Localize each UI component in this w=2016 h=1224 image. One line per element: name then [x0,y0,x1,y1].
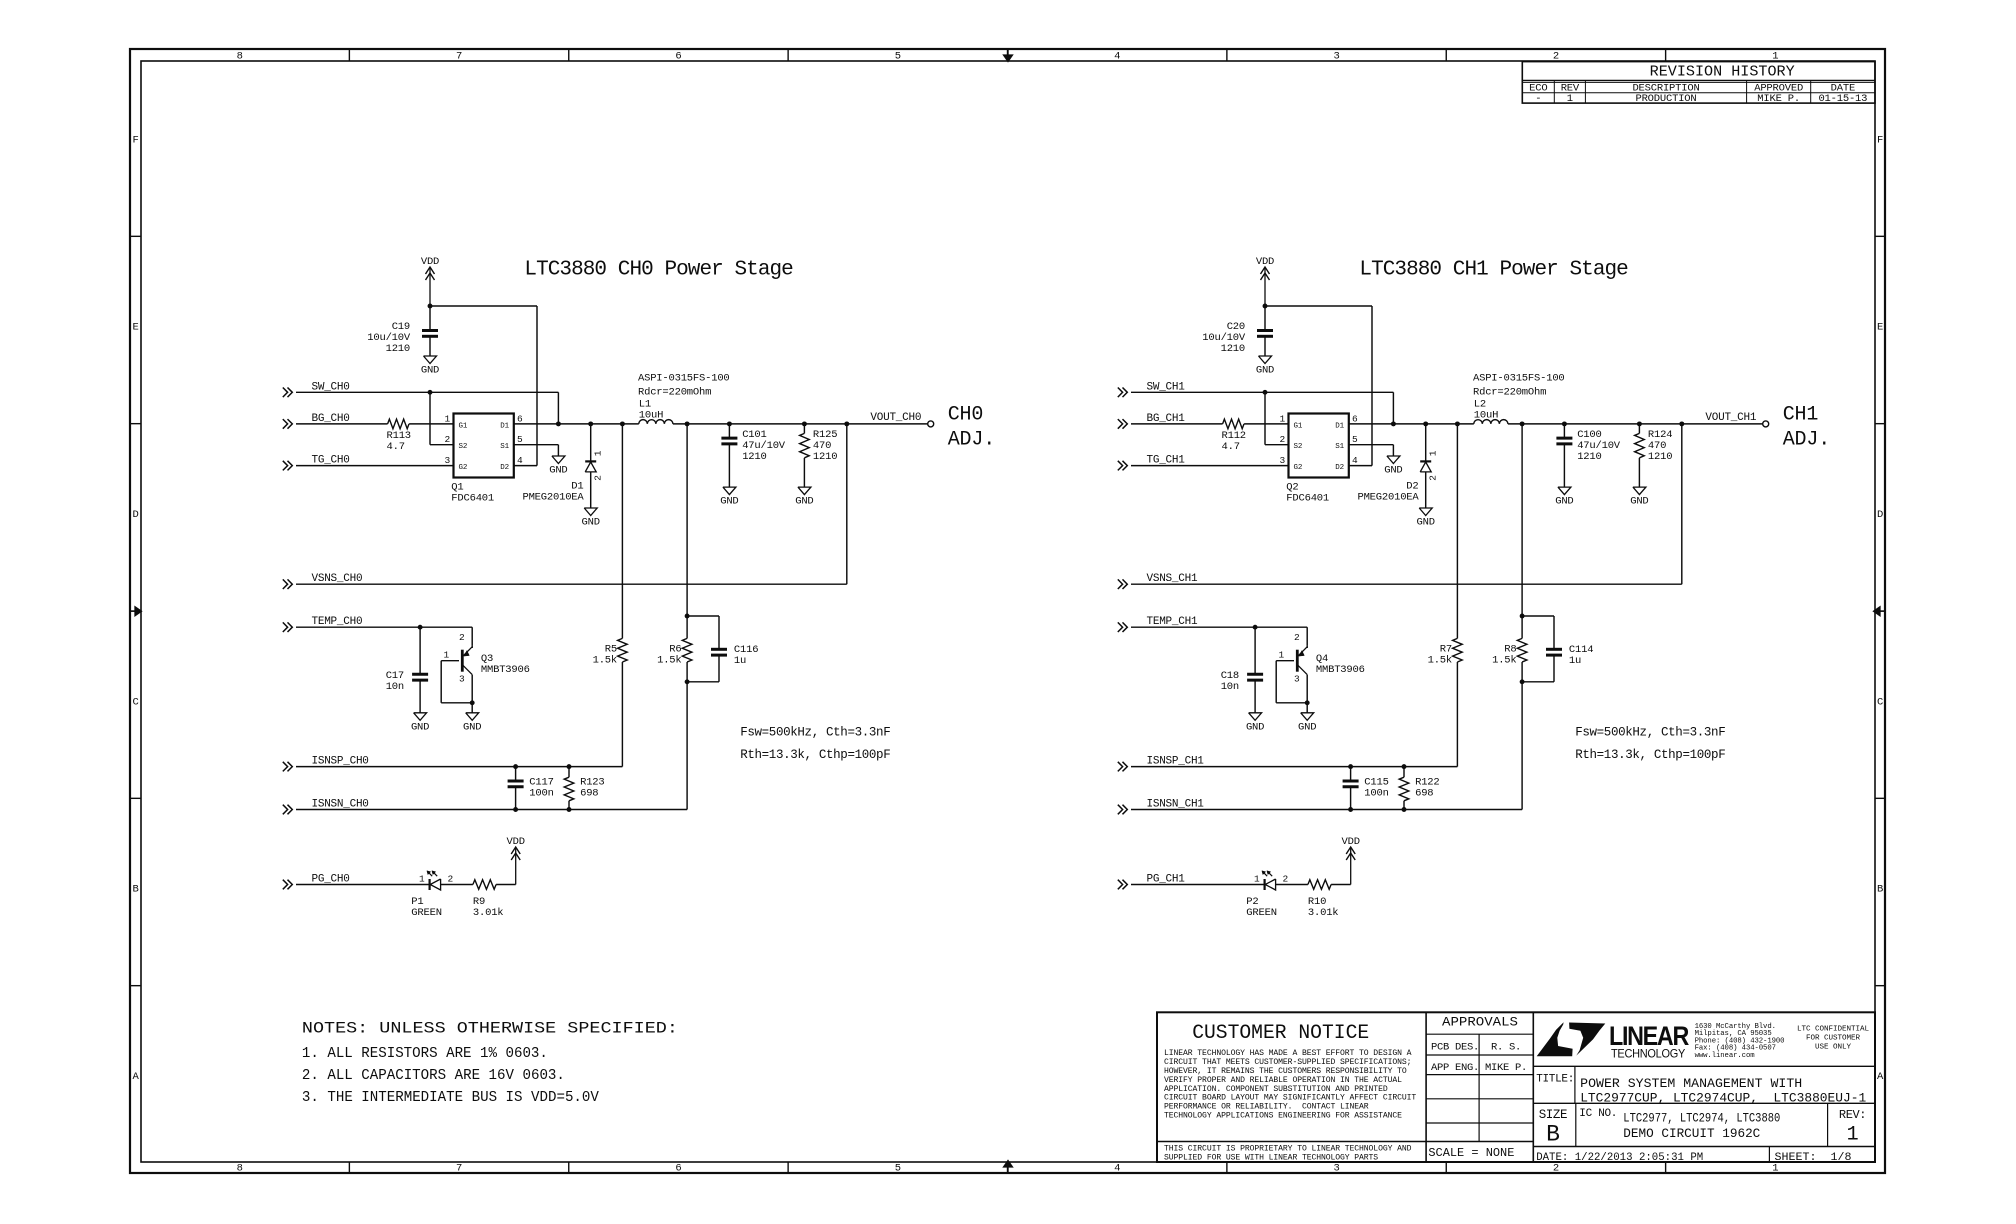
svg-text:4: 4 [517,455,523,466]
svg-text:4: 4 [1114,51,1120,63]
svg-text:PCB DES.: PCB DES. [1431,1042,1479,1054]
svg-text:3.01k: 3.01k [473,907,504,919]
svg-text:2: 2 [448,874,454,885]
svg-text:1210: 1210 [386,343,410,355]
svg-text:1210: 1210 [813,451,837,463]
svg-text:MMBT3906: MMBT3906 [1316,664,1365,676]
svg-text:D: D [132,509,138,521]
svg-text:2: 2 [593,475,604,481]
svg-text:ADJ.: ADJ. [948,428,995,451]
svg-text:VDD: VDD [507,836,525,848]
svg-text:698: 698 [580,787,598,799]
svg-text:TG_CH0: TG_CH0 [312,455,350,467]
svg-text:CUSTOMER NOTICE: CUSTOMER NOTICE [1192,1022,1369,1045]
svg-text:6: 6 [675,51,681,63]
svg-text:SW_CH1: SW_CH1 [1147,381,1186,393]
svg-text:2: 2 [1283,874,1289,885]
svg-text:Fsw=500kHz, Cth=3.3nF: Fsw=500kHz, Cth=3.3nF [1575,725,1725,739]
svg-text:LINEAR TECHNOLOGY HAS MADE A B: LINEAR TECHNOLOGY HAS MADE A BEST EFFORT… [1164,1049,1412,1058]
svg-text:F: F [132,134,138,146]
svg-text:GND: GND [720,496,738,508]
svg-text:LTC CONFIDENTIAL: LTC CONFIDENTIAL [1797,1026,1870,1034]
svg-text:LTC3880 CH0 Power Stage: LTC3880 CH0 Power Stage [524,259,793,282]
svg-text:2: 2 [459,632,465,643]
svg-text:PERFORMANCE OR RELIABILITY. C: PERFORMANCE OR RELIABILITY. CONTACT LINE… [1164,1103,1369,1112]
svg-text:TEMP_CH0: TEMP_CH0 [312,616,363,628]
svg-text:3: 3 [459,674,465,685]
svg-text:GREEN: GREEN [1246,907,1277,919]
svg-text:IC NO.: IC NO. [1579,1108,1617,1120]
svg-text:TECHNOLOGY APPLICATIONS ENGINE: TECHNOLOGY APPLICATIONS ENGINEERING FOR … [1164,1112,1402,1121]
svg-text:6: 6 [517,413,523,424]
svg-text:SIZE: SIZE [1539,1108,1567,1122]
svg-text:VDD: VDD [421,256,439,268]
svg-text:APPLICATION. COMPONENT SUBSTIT: APPLICATION. COMPONENT SUBSTITUTION AND … [1164,1085,1388,1094]
svg-text:1: 1 [1567,93,1573,105]
svg-text:2: 2 [1428,475,1439,481]
svg-text:3: 3 [1334,51,1340,63]
svg-text:GND: GND [795,496,813,508]
svg-text:ISNSP_CH0: ISNSP_CH0 [312,756,369,768]
svg-text:7: 7 [456,51,462,63]
svg-text:01-15-13: 01-15-13 [1818,93,1867,105]
svg-text:MMBT3906: MMBT3906 [481,664,530,676]
svg-text:4: 4 [1114,1163,1120,1175]
svg-text:1. ALL RESISTORS ARE 1% 0603.: 1. ALL RESISTORS ARE 1% 0603. [302,1045,548,1062]
svg-text:D2: D2 [500,464,509,472]
svg-text:VSNS_CH1: VSNS_CH1 [1147,573,1198,585]
svg-text:GND: GND [1417,517,1435,529]
svg-text:GND: GND [1384,465,1402,477]
svg-text:10uH: 10uH [1474,410,1498,422]
svg-text:S1: S1 [500,443,509,451]
svg-text:1: 1 [443,650,449,661]
svg-text:TITLE:: TITLE: [1536,1073,1574,1085]
svg-text:CH0: CH0 [948,403,984,426]
svg-text:4: 4 [1352,455,1358,466]
svg-text:Rdcr=220mOhm: Rdcr=220mOhm [638,386,711,398]
svg-text:10n: 10n [1221,681,1239,693]
svg-text:B: B [1877,884,1883,896]
svg-text:G2: G2 [459,464,468,472]
svg-text:1: 1 [1772,1163,1778,1175]
svg-text:USE ONLY: USE ONLY [1815,1044,1852,1052]
svg-text:1: 1 [444,413,450,424]
svg-text:PG_CH0: PG_CH0 [312,874,350,886]
svg-text:CIRCUIT BOARD LAYOUT MAY SIGNI: CIRCUIT BOARD LAYOUT MAY SIGNIFICANTLY A… [1164,1094,1416,1103]
svg-text:S1: S1 [1335,443,1344,451]
svg-text:-: - [1535,93,1541,105]
svg-text:REVISION HISTORY: REVISION HISTORY [1650,65,1795,81]
svg-text:1: 1 [593,450,604,456]
svg-text:1: 1 [419,874,425,885]
svg-text:5: 5 [1352,434,1358,445]
svg-text:ADJ.: ADJ. [1783,428,1830,451]
svg-text:Rth=13.3k, Cthp=100pF: Rth=13.3k, Cthp=100pF [1575,748,1725,762]
svg-text:1u: 1u [734,655,746,667]
svg-text:REV:: REV: [1839,1108,1866,1122]
svg-text:CH1: CH1 [1783,403,1819,426]
svg-text:TECHNOLOGY: TECHNOLOGY [1611,1047,1685,1061]
svg-text:NOTES: UNLESS OTHERWISE SPECIF: NOTES: UNLESS OTHERWISE SPECIFIED: [302,1020,678,1038]
svg-text:ASPI-0315FS-100: ASPI-0315FS-100 [638,372,730,384]
svg-text:GREEN: GREEN [411,907,442,919]
svg-text:GND: GND [1256,365,1274,377]
svg-text:1210: 1210 [1221,343,1245,355]
svg-text:G1: G1 [1294,422,1303,430]
svg-text:VDD: VDD [1256,256,1274,268]
svg-text:TG_CH1: TG_CH1 [1147,455,1186,467]
svg-text:PG_CH1: PG_CH1 [1147,874,1186,886]
svg-text:GND: GND [582,517,600,529]
svg-text:8: 8 [237,51,243,63]
svg-text:3: 3 [1279,455,1285,466]
svg-text:C: C [1877,696,1883,708]
svg-text:R. S.: R. S. [1491,1042,1521,1054]
svg-text:5: 5 [895,1163,901,1175]
svg-text:GND: GND [411,721,429,733]
svg-text:GND: GND [1298,721,1316,733]
svg-text:FDC6401: FDC6401 [1286,492,1329,504]
svg-text:CIRCUIT THAT MEETS CUSTOMER-SU: CIRCUIT THAT MEETS CUSTOMER-SUPPLIED SPE… [1164,1058,1411,1067]
svg-text:G1: G1 [459,422,468,430]
svg-text:SHEET: 1/8: SHEET: 1/8 [1775,1152,1852,1164]
svg-text:LTC2977CUP, LTC2974CUP, LTC38: LTC2977CUP, LTC2974CUP, LTC3880EUJ-1 [1580,1090,1866,1105]
svg-text:BG_CH1: BG_CH1 [1147,413,1186,425]
svg-text:2: 2 [444,434,450,445]
svg-text:1: 1 [1847,1123,1859,1146]
svg-text:POWER SYSTEM MANAGEMENT WITH: POWER SYSTEM MANAGEMENT WITH [1580,1076,1802,1091]
svg-text:ISNSN_CH1: ISNSN_CH1 [1147,799,1205,811]
svg-text:4.7: 4.7 [1222,441,1240,453]
svg-text:THIS CIRCUIT IS PROPRIETARY TO: THIS CIRCUIT IS PROPRIETARY TO LINEAR TE… [1164,1145,1412,1154]
svg-text:SW_CH0: SW_CH0 [312,381,350,393]
svg-text:B: B [132,884,138,896]
svg-text:2: 2 [1553,1163,1559,1175]
svg-text:VDD: VDD [1342,836,1360,848]
svg-text:SCALE = NONE: SCALE = NONE [1428,1146,1514,1160]
svg-text:2: 2 [1294,632,1300,643]
svg-text:3.01k: 3.01k [1308,907,1339,919]
svg-text:ISNSN_CH0: ISNSN_CH0 [312,799,369,811]
svg-text:F: F [1877,134,1883,146]
svg-text:ISNSP_CH1: ISNSP_CH1 [1147,756,1205,768]
svg-text:3: 3 [444,455,450,466]
svg-text:GND: GND [421,365,439,377]
svg-text:2: 2 [1279,434,1285,445]
svg-text:1: 1 [1254,874,1260,885]
svg-text:1: 1 [1278,650,1284,661]
svg-text:1: 1 [1279,413,1285,424]
svg-text:PMEG2010EA: PMEG2010EA [1357,491,1419,503]
svg-text:TEMP_CH1: TEMP_CH1 [1147,616,1198,628]
svg-text:1.5k: 1.5k [1428,654,1452,666]
svg-text:3: 3 [1294,674,1300,685]
svg-text:S2: S2 [1294,443,1303,451]
svg-text:698: 698 [1415,787,1433,799]
svg-text:1: 1 [1428,450,1439,456]
svg-text:Fsw=500kHz, Cth=3.3nF: Fsw=500kHz, Cth=3.3nF [740,725,890,739]
svg-text:GND: GND [1630,496,1648,508]
svg-text:5: 5 [517,434,523,445]
svg-text:D2: D2 [1335,464,1344,472]
svg-text:D1: D1 [1335,422,1344,430]
svg-text:E: E [132,322,138,334]
svg-text:6: 6 [1352,413,1358,424]
svg-text:S2: S2 [459,443,468,451]
svg-text:ASPI-0315FS-100: ASPI-0315FS-100 [1473,372,1565,384]
svg-text:LTC3880 CH1 Power Stage: LTC3880 CH1 Power Stage [1359,259,1628,282]
svg-text:APPROVALS: APPROVALS [1442,1014,1518,1029]
svg-text:GND: GND [549,465,567,477]
svg-text:VOUT_CH0: VOUT_CH0 [870,412,921,424]
svg-text:3: 3 [1334,1163,1340,1175]
svg-text:DEMO CIRCUIT 1962C: DEMO CIRCUIT 1962C [1623,1127,1760,1141]
svg-text:3. THE INTERMEDIATE BUS IS VDD: 3. THE INTERMEDIATE BUS IS VDD=5.0V [302,1089,599,1106]
svg-text:10n: 10n [386,681,404,693]
svg-text:8: 8 [237,1163,243,1175]
svg-text:2: 2 [1553,51,1559,63]
svg-text:5: 5 [895,51,901,63]
svg-text:GND: GND [1246,721,1264,733]
svg-text:MIKE P.: MIKE P. [1757,93,1800,105]
svg-text:1.5k: 1.5k [593,654,617,666]
svg-text:FDC6401: FDC6401 [451,492,494,504]
svg-text:DATE: 1/22/2013 2:05:31 PM: DATE: 1/22/2013 2:05:31 PM [1536,1152,1703,1164]
svg-text:MIKE P.: MIKE P. [1485,1062,1527,1074]
svg-text:1210: 1210 [1577,451,1601,463]
svg-text:1.5k: 1.5k [657,654,681,666]
svg-text:10uH: 10uH [639,410,663,422]
svg-text:APP ENG.: APP ENG. [1431,1062,1479,1074]
svg-text:VERIFY PROPER AND RELIABLE OPE: VERIFY PROPER AND RELIABLE OPERATION IN … [1164,1076,1402,1085]
svg-text:BG_CH0: BG_CH0 [312,413,350,425]
svg-text:1u: 1u [1569,655,1581,667]
svg-text:Rdcr=220mOhm: Rdcr=220mOhm [1473,386,1546,398]
svg-text:G2: G2 [1294,464,1303,472]
svg-text:1210: 1210 [1648,451,1672,463]
svg-text:www.linear.com: www.linear.com [1695,1052,1755,1060]
svg-text:1: 1 [1772,51,1778,63]
svg-text:Rth=13.3k, Cthp=100pF: Rth=13.3k, Cthp=100pF [740,748,890,762]
svg-text:PRODUCTION: PRODUCTION [1635,93,1696,105]
svg-text:GND: GND [1555,496,1573,508]
svg-text:VSNS_CH0: VSNS_CH0 [312,573,363,585]
svg-text:4.7: 4.7 [387,441,405,453]
svg-text:A: A [1877,1071,1884,1083]
svg-text:GND: GND [463,721,481,733]
svg-text:B: B [1546,1121,1560,1147]
svg-text:7: 7 [456,1163,462,1175]
svg-text:PMEG2010EA: PMEG2010EA [522,491,584,503]
svg-text:E: E [1877,322,1883,334]
svg-text:D1: D1 [500,422,509,430]
svg-text:100n: 100n [529,787,553,799]
svg-text:VOUT_CH1: VOUT_CH1 [1705,412,1756,424]
svg-text:LTC2977, LTC2974, LTC3880: LTC2977, LTC2974, LTC3880 [1623,1111,1780,1125]
svg-text:C: C [132,696,138,708]
svg-text:2. ALL CAPACITORS ARE 16V 0603: 2. ALL CAPACITORS ARE 16V 0603. [302,1067,565,1084]
svg-text:SUPPLIED FOR USE WITH LINEAR T: SUPPLIED FOR USE WITH LINEAR TECHNOLOGY … [1164,1154,1378,1163]
svg-text:1.5k: 1.5k [1492,654,1516,666]
svg-text:FOR CUSTOMER: FOR CUSTOMER [1806,1035,1861,1043]
svg-text:100n: 100n [1364,787,1388,799]
svg-text:D: D [1877,509,1883,521]
svg-text:1210: 1210 [742,451,766,463]
svg-text:HOWEVER, IT REMAINS THE CUSTOM: HOWEVER, IT REMAINS THE CUSTOMERS RESPON… [1164,1067,1407,1076]
svg-text:A: A [132,1071,139,1083]
svg-text:6: 6 [675,1163,681,1175]
